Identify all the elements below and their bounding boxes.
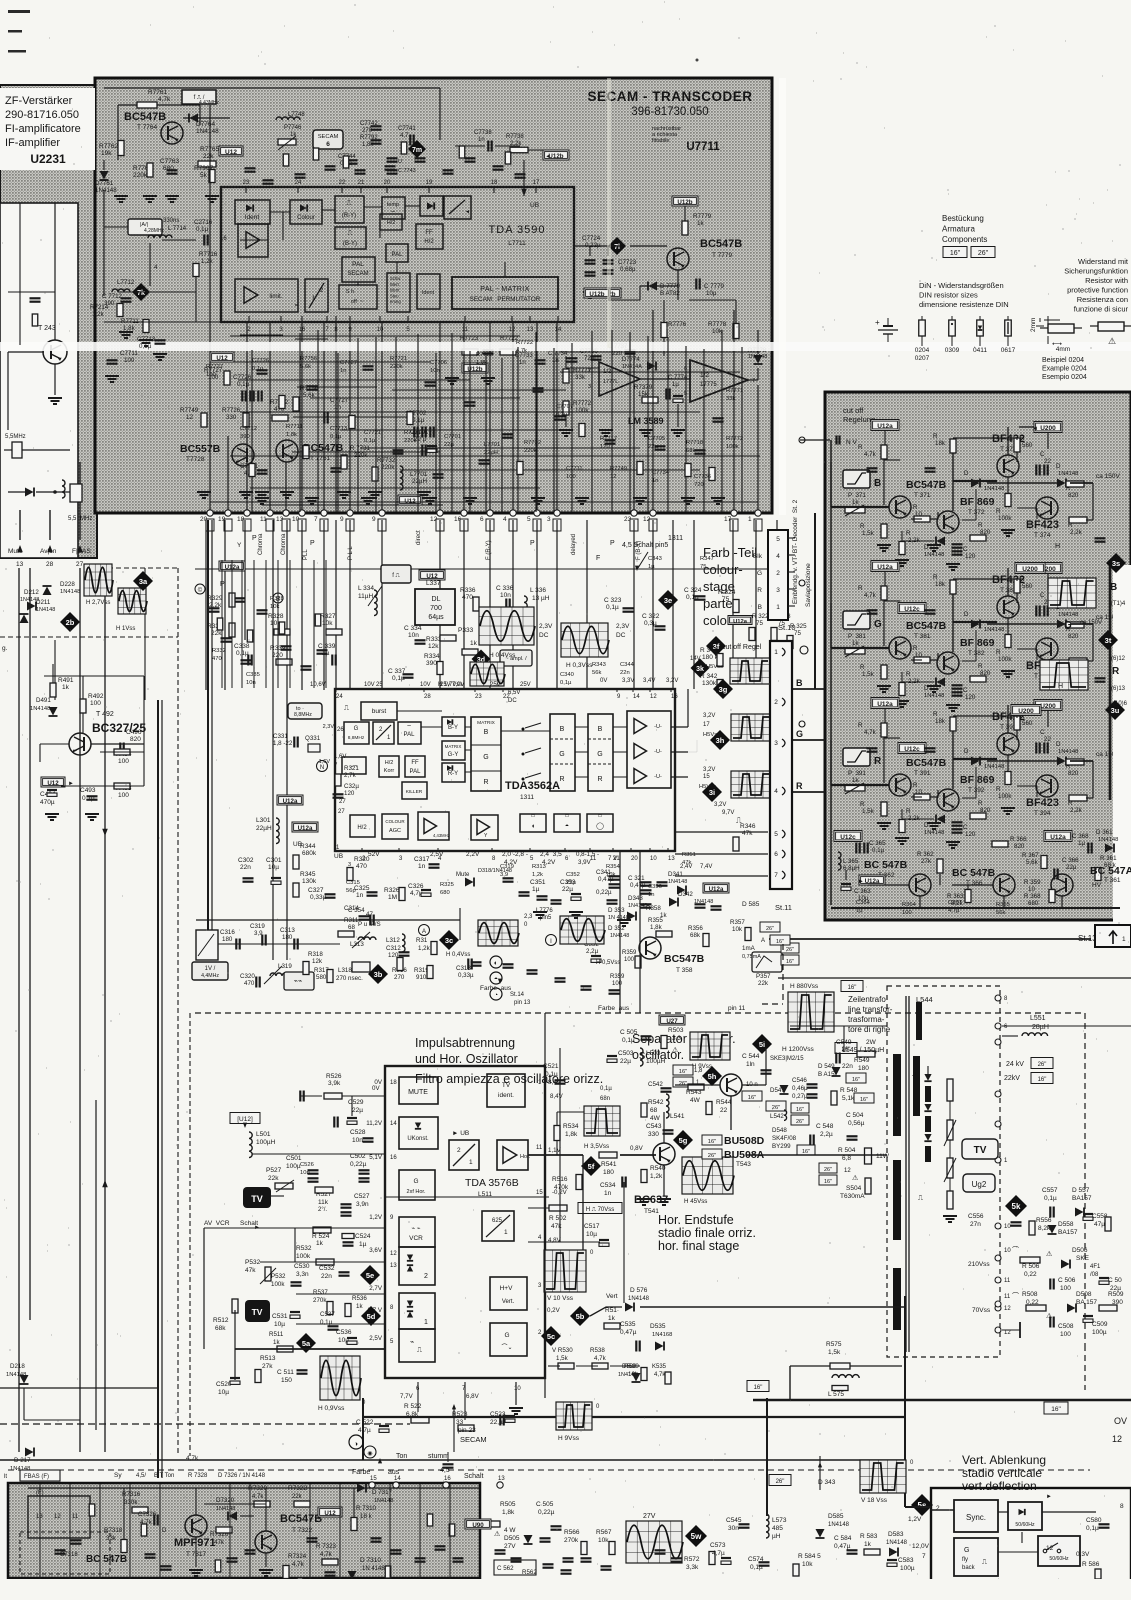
- svg-text:/08: /08: [1090, 1272, 1099, 1278]
- TDA3590 PAL SECAM box: [342, 257, 375, 282]
- heavy ground bus y1400: [753, 1399, 1131, 1402]
- svg-text:line transfor-: line transfor-: [848, 1005, 893, 1014]
- TDA3590 slope box: [444, 196, 471, 219]
- U12c boxes between channels: [898, 603, 926, 614]
- svg-text:R542: R542: [648, 1099, 664, 1106]
- svg-text:5,5: 5,5: [68, 516, 77, 522]
- svg-text:R359: R359: [622, 950, 637, 956]
- svg-text:◑: ◑: [354, 1441, 358, 1448]
- svg-text:C557: C557: [1042, 1187, 1058, 1194]
- U12a box colour top left: [219, 561, 245, 571]
- svg-text:L503: L503: [646, 1050, 661, 1057]
- svg-text:2,2µ: 2,2µ: [586, 948, 599, 955]
- svg-text:10n: 10n: [430, 368, 440, 374]
- svg-text:R: R: [1112, 666, 1120, 677]
- driver transistor BU508 base network: [720, 1074, 742, 1096]
- svg-text:16": 16": [748, 1095, 757, 1101]
- scan crease vertical: [779, 78, 786, 515]
- wire colour out to hor section: [619, 851, 621, 1013]
- vert block wires: [930, 1509, 954, 1511]
- transformer winding bars primary: [893, 1054, 901, 1136]
- St.11 tall connector strip: [770, 641, 792, 889]
- svg-text:R: R: [996, 508, 1001, 515]
- svg-text:1,8: 1,8: [694, 1068, 703, 1074]
- svg-text:C7713: C7713: [330, 426, 347, 432]
- svg-text:220k: 220k: [381, 464, 395, 471]
- svg-text:B: B: [598, 726, 603, 733]
- IF output lines to pins: [19, 510, 21, 540]
- svg-text:BU508D: BU508D: [724, 1135, 765, 1147]
- svg-text:⚠: ⚠: [852, 1174, 858, 1182]
- 3e diamond: [658, 590, 678, 610]
- svg-text:5c: 5c: [547, 1332, 555, 1341]
- svg-text:100k: 100k: [296, 1253, 311, 1260]
- svg-text:BY299: BY299: [772, 1143, 791, 1150]
- svg-text:16": 16": [852, 1077, 860, 1083]
- svg-text:dimensione resistenze DIN: dimensione resistenze DIN: [919, 300, 1009, 309]
- svg-text:0,27µ: 0,27µ: [792, 1093, 808, 1100]
- svg-text:L313: L313: [350, 941, 364, 948]
- svg-text:0,1µ: 0,1µ: [606, 604, 619, 611]
- svg-text:R7731: R7731: [404, 430, 421, 436]
- svg-text:► UB: ► UB: [452, 1130, 469, 1137]
- svg-text:R491: R491: [58, 677, 74, 684]
- svg-text:470: 470: [212, 656, 222, 662]
- svg-text:8: 8: [1120, 1503, 1124, 1510]
- svg-text:P532: P532: [271, 1273, 286, 1280]
- Sync box: [954, 1500, 998, 1532]
- svg-text:PAL: PAL: [404, 732, 416, 738]
- svg-text:▭: ▭: [565, 813, 570, 819]
- svg-text:470: 470: [462, 594, 473, 601]
- svg-text:4,5 Schalt pin5: 4,5 Schalt pin5: [622, 542, 668, 549]
- svg-text:L7701: L7701: [410, 471, 428, 478]
- svg-text:PAL: PAL: [392, 252, 404, 258]
- svg-text:10k: 10k: [606, 872, 615, 878]
- waveform boxes H5Vss right: [731, 714, 771, 741]
- svg-text:⚠: ⚠: [1108, 336, 1116, 346]
- svg-text:(10)6: (10)6: [1113, 701, 1128, 707]
- 5f diamond: [581, 1156, 601, 1176]
- svg-text:4,28MHz: 4,28MHz: [144, 228, 165, 234]
- svg-text:C583: C583: [898, 1557, 914, 1564]
- diamond 3s: [1106, 553, 1126, 573]
- svg-text:P: P: [530, 540, 535, 547]
- svg-text:C517: C517: [584, 1223, 600, 1230]
- svg-text:U12: U12: [404, 498, 416, 505]
- svg-text:L7712: L7712: [117, 279, 135, 286]
- wires from TDA3562A right to St11: [675, 831, 768, 833]
- RGB block channel base wires: [831, 506, 864, 508]
- svg-text:396-81730.050: 396-81730.050: [631, 106, 708, 118]
- svg-text:16": 16": [848, 985, 857, 991]
- svg-text:0,1µ: 0,1µ: [236, 650, 249, 657]
- svg-text:R325: R325: [440, 882, 454, 888]
- RGB output stage shaded area: [825, 392, 1131, 920]
- svg-text:R: R: [1020, 576, 1025, 583]
- svg-text:H5Vss: H5Vss: [703, 732, 720, 738]
- svg-text:33k: 33k: [575, 374, 586, 381]
- svg-text:C320: C320: [240, 973, 255, 980]
- svg-text:22: 22: [1044, 736, 1051, 743]
- svg-text:120: 120: [600, 444, 610, 450]
- svg-text:6,5V: 6,5V: [508, 690, 520, 696]
- svg-text:R 367: R 367: [1022, 852, 1039, 859]
- svg-text:12,0V: 12,0V: [912, 1543, 930, 1550]
- TDA3576B 2/1 box: [449, 1140, 479, 1170]
- svg-text:C 505: C 505: [620, 1029, 638, 1036]
- focus divider resistors: [947, 1079, 953, 1101]
- svg-text:0,47µ: 0,47µ: [620, 1329, 637, 1336]
- svg-text:P357: P357: [756, 973, 771, 980]
- svg-text:SKE: SKE: [1076, 1255, 1090, 1262]
- svg-text:22n: 22n: [620, 670, 630, 676]
- V18Vss waveform: [860, 1460, 906, 1493]
- svg-text:1k: 1k: [852, 640, 859, 647]
- svg-text:12: 12: [610, 474, 616, 480]
- wire bus top: [104, 87, 440, 89]
- svg-text:1: 1: [748, 516, 752, 523]
- svg-text:DC: DC: [539, 632, 549, 639]
- svg-text:V R530: V R530: [552, 1347, 573, 1354]
- svg-text:D 549: D 549: [818, 1063, 835, 1070]
- svg-text:330: 330: [648, 1131, 659, 1138]
- svg-text:1k: 1k: [852, 777, 859, 784]
- svg-text:DiN - Widerstandsgrößen: DiN - Widerstandsgrößen: [919, 281, 1004, 290]
- svg-text:16": 16": [1038, 1077, 1047, 1083]
- svg-text:4,7µ: 4,7µ: [948, 908, 960, 914]
- svg-text:R7379: R7379: [634, 384, 653, 391]
- svg-text:H: H: [1055, 543, 1060, 550]
- svg-text:D535: D535: [650, 1323, 666, 1330]
- 3f diamond: [706, 636, 726, 656]
- svg-text:(R-Y): (R-Y): [342, 213, 356, 219]
- svg-text:D 576: D 576: [630, 1287, 648, 1294]
- svg-text:2,2k: 2,2k: [510, 141, 522, 147]
- svg-text:C 504: C 504: [846, 1112, 864, 1119]
- svg-text:2,5V: 2,5V: [369, 1335, 383, 1342]
- svg-text:11k: 11k: [318, 1199, 329, 1206]
- svg-text:10: 10: [1004, 1224, 1011, 1230]
- top margin specks: [8, 10, 30, 13]
- svg-text:Mute: Mute: [456, 872, 470, 878]
- svg-text:R 361: R 361: [1100, 855, 1117, 862]
- svg-text:100k: 100k: [575, 407, 589, 414]
- svg-text:C7701: C7701: [444, 434, 461, 440]
- svg-text:3e: 3e: [664, 596, 672, 605]
- svg-text:T7728: T7728: [186, 456, 205, 463]
- U12a small box: [728, 616, 752, 625]
- svg-text:ZF-Verstärker: ZF-Verstärker: [5, 95, 73, 107]
- diamond 3t: [1098, 630, 1118, 650]
- SECAM extra horizontal ties 2: [230, 335, 520, 337]
- svg-text:L312: L312: [386, 937, 400, 944]
- svg-text:3,9k: 3,9k: [328, 1080, 341, 1087]
- svg-text:180: 180: [858, 1065, 869, 1072]
- svg-text:C 505: C 505: [536, 1501, 554, 1508]
- svg-text:120: 120: [965, 553, 976, 560]
- svg-text:100: 100: [566, 474, 576, 480]
- svg-text:P: P: [310, 540, 315, 547]
- svg-text:75: 75: [722, 596, 730, 603]
- svg-text:R534: R534: [563, 1123, 579, 1130]
- svg-text:F: F: [596, 555, 600, 562]
- 7k diamond: [132, 283, 150, 301]
- svg-text:28: 28: [424, 694, 431, 700]
- svg-text:B: B: [758, 604, 762, 611]
- 5c diamond: [541, 1326, 561, 1346]
- svg-text:47k: 47k: [682, 860, 691, 866]
- svg-text:0,1µ: 0,1µ: [1086, 1525, 1099, 1532]
- svg-text:C351: C351: [530, 879, 546, 886]
- svg-text:R: R: [996, 786, 1001, 793]
- svg-text:5: 5: [774, 831, 778, 838]
- svg-text:0,1µ: 0,1µ: [545, 1071, 558, 1078]
- svg-text:R 7328: R 7328: [188, 1473, 208, 1479]
- svg-text:18: 18: [491, 180, 498, 186]
- bottom scattered caps: [540, 1537, 551, 1539]
- svg-text:180 k: 180 k: [702, 654, 719, 661]
- channel B diode D373: [971, 479, 980, 488]
- svg-text:R: R: [978, 800, 983, 807]
- svg-text:470µ: 470µ: [40, 799, 55, 806]
- svg-text:0,47µ: 0,47µ: [834, 1543, 851, 1550]
- svg-text:ident.: ident.: [498, 1092, 514, 1099]
- svg-text:C508: C508: [1058, 1323, 1074, 1330]
- svg-text:1N4148: 1N4148: [1058, 471, 1078, 477]
- svg-text:R345: R345: [300, 871, 316, 878]
- svg-text:R344: R344: [300, 843, 316, 850]
- waveform H0,9Vss: [320, 1356, 360, 1400]
- svg-text:R7718: R7718: [686, 440, 703, 446]
- channel B input waveform box: [843, 470, 870, 488]
- TDA3590 S-h box: [339, 285, 377, 309]
- svg-text:R 359: R 359: [1024, 879, 1041, 886]
- svg-text:1N4148: 1N4148: [196, 128, 219, 135]
- svg-text:R7711: R7711: [286, 424, 303, 430]
- svg-text:C 322: C 322: [642, 613, 660, 620]
- TDA3562A PAL switch box: [398, 722, 421, 744]
- svg-text:R 362: R 362: [917, 851, 934, 858]
- svg-text:D: D: [964, 470, 969, 477]
- svg-text:R549: R549: [854, 1057, 870, 1064]
- svg-text:2,2k: 2,2k: [1070, 529, 1083, 536]
- svg-text:27V: 27V: [504, 1543, 516, 1550]
- D7778 diode: [754, 355, 763, 364]
- svg-text:C 506: C 506: [1058, 1277, 1076, 1284]
- svg-text:26": 26": [1038, 1062, 1047, 1068]
- svg-text:protective function: protective function: [1067, 286, 1128, 295]
- U12a box bottom: [1044, 831, 1072, 842]
- left-of-IC cluster to 8.8MHz: [288, 703, 322, 719]
- svg-text:68k: 68k: [215, 1325, 226, 1332]
- svg-text:22: 22: [720, 1107, 728, 1114]
- svg-text:100µ: 100µ: [900, 1565, 915, 1572]
- svg-text:R512: R512: [213, 1317, 229, 1324]
- 5b diamond: [570, 1306, 590, 1326]
- svg-text:26": 26": [796, 1119, 804, 1125]
- svg-text:R513: R513: [260, 1355, 276, 1362]
- svg-text:T 374: T 374: [1034, 532, 1051, 539]
- svg-text:2,3V: 2,3V: [323, 724, 335, 730]
- svg-text:Saviaposizione: Saviaposizione: [805, 563, 812, 607]
- svg-text:820: 820: [1068, 633, 1079, 640]
- svg-text:H 0,4Vss: H 0,4Vss: [446, 952, 470, 958]
- svg-text:R326: R326: [384, 887, 400, 894]
- svg-text:BF 869: BF 869: [960, 496, 995, 508]
- svg-text:◓: ◓: [565, 823, 569, 830]
- svg-text:R7716: R7716: [199, 251, 218, 258]
- svg-text:1µ: 1µ: [532, 886, 540, 893]
- svg-text:10n: 10n: [300, 1170, 310, 1176]
- svg-text:U12a: U12a: [877, 423, 893, 430]
- svg-text:820: 820: [1068, 492, 1079, 499]
- svg-text:270k: 270k: [564, 1537, 579, 1544]
- svg-text:D508: D508: [1076, 1291, 1092, 1298]
- svg-text:BF423: BF423: [1026, 519, 1059, 531]
- svg-text:22kV: 22kV: [1004, 1075, 1020, 1082]
- svg-text:10n: 10n: [408, 632, 419, 639]
- R541 resistor: [599, 1152, 617, 1158]
- colour section left parts: [209, 607, 220, 609]
- svg-text:C 7712: C 7712: [102, 293, 123, 300]
- svg-text:FI-amplificatore: FI-amplificatore: [5, 123, 81, 135]
- svg-text:4,7µ: 4,7µ: [358, 1427, 371, 1434]
- wires around TDA3576B: [351, 1096, 353, 1116]
- svg-text:R7749: R7749: [180, 407, 199, 414]
- svg-text:2,3V: 2,3V: [616, 623, 630, 630]
- U12 feed box: [219, 146, 243, 156]
- svg-text:K535: K535: [652, 1364, 667, 1370]
- svg-text:3,9n: 3,9n: [356, 1201, 369, 1208]
- svg-text:C 336: C 336: [496, 585, 514, 592]
- svg-text:C317: C317: [414, 856, 430, 863]
- page bottom white margin: [0, 1579, 1131, 1600]
- channel R input waveform box: [843, 748, 870, 766]
- svg-text:SKE3|M2/15: SKE3|M2/15: [770, 1056, 804, 1062]
- svg-text:24: 24: [336, 694, 343, 700]
- svg-text:BC547B: BC547B: [124, 111, 166, 123]
- svg-text:R: R: [860, 664, 865, 671]
- TDA3576B G 2xfHor box: [399, 1170, 435, 1200]
- svg-text:L318: L318: [338, 967, 352, 974]
- svg-text:Resistor with: Resistor with: [1085, 276, 1128, 285]
- svg-text:28: 28: [46, 561, 54, 568]
- svg-text:Schw: Schw: [390, 276, 401, 281]
- svg-text:485: 485: [772, 1525, 783, 1532]
- svg-text:22µ: 22µ: [648, 444, 658, 450]
- svg-text:hor. final stage: hor. final stage: [658, 1239, 739, 1253]
- svg-text:220k: 220k: [390, 364, 403, 370]
- IF-amplifier block shaded area: [0, 85, 97, 558]
- svg-text:5,6k: 5,6k: [300, 364, 311, 370]
- svg-text:C7727: C7727: [340, 360, 357, 366]
- svg-text:Ident: Ident: [390, 288, 400, 293]
- svg-text:C530: C530: [294, 1263, 310, 1270]
- svg-text:700: 700: [430, 605, 442, 612]
- svg-text:PAL - MATRIX: PAL - MATRIX: [480, 286, 529, 293]
- svg-text:1k: 1k: [697, 220, 704, 227]
- svg-text:temp: temp: [387, 202, 399, 208]
- SECAM block lower horizontal ties: [230, 361, 430, 363]
- svg-text:22µ: 22µ: [444, 442, 454, 448]
- svg-text:2,2k: 2,2k: [1070, 807, 1083, 814]
- svg-text:2,3: 2,3: [524, 914, 533, 920]
- svg-text:R7778: R7778: [708, 321, 727, 328]
- svg-text:C503: C503: [618, 1050, 634, 1057]
- SECAM transcoder block shaded area: [95, 78, 772, 513]
- diode D2xx: [25, 488, 34, 497]
- op-amp 1/2 17775 LM3589: [690, 360, 748, 402]
- svg-text:25V: 25V: [490, 682, 501, 688]
- svg-text:0204: 0204: [915, 347, 930, 354]
- svg-text:U12: U12: [324, 1510, 336, 1517]
- svg-text:15: 15: [703, 774, 710, 780]
- svg-text:470k: 470k: [554, 1184, 569, 1191]
- svg-text:1,2k: 1,2k: [532, 872, 543, 878]
- svg-text:2b: 2b: [66, 618, 75, 627]
- waveform H0,4Vss H0,5Vss: [478, 920, 518, 946]
- svg-text:C 7743: C 7743: [398, 168, 416, 174]
- svg-text:0,8V: 0,8V: [630, 1145, 644, 1152]
- waveform V10Vss: [544, 1250, 586, 1292]
- circled B connector: [273, 593, 283, 603]
- f/f waveform box top: [381, 565, 411, 583]
- svg-text:R7214: R7214: [90, 304, 109, 311]
- circled sym bottom: [349, 1435, 363, 1449]
- waveform H45Vss: [682, 1157, 733, 1194]
- svg-text:C340: C340: [560, 672, 574, 678]
- D7774 diode: [647, 362, 656, 371]
- svg-text:12: 12: [390, 1251, 397, 1257]
- 5d diamond: [361, 1306, 381, 1326]
- svg-text:2,2V: 2,2V: [466, 851, 480, 858]
- svg-text:R 368: R 368: [1024, 893, 1041, 900]
- svg-text:Ug2: Ug2: [972, 1180, 987, 1189]
- svg-text:9: 9: [340, 516, 344, 523]
- svg-text:VCR: VCR: [409, 1235, 423, 1242]
- svg-text:17: 17: [703, 722, 710, 728]
- heavy wire pin11 hor drive: [528, 1154, 583, 1156]
- svg-text:1,2V: 1,2V: [369, 1214, 383, 1221]
- svg-text:24 kV: 24 kV: [1006, 1061, 1024, 1068]
- svg-text:T 361: T 361: [1104, 877, 1121, 884]
- svg-text:R: R: [978, 663, 983, 670]
- svg-text:D7764: D7764: [196, 121, 216, 128]
- TDA3590 B-Y box: [335, 227, 366, 249]
- svg-text:R: R: [933, 711, 938, 718]
- mid dashed vertical x=545: [544, 1013, 546, 1398]
- svg-text:BA 157: BA 157: [1076, 1299, 1097, 1306]
- svg-text:1,5k: 1,5k: [862, 671, 875, 678]
- svg-text:7m: 7m: [412, 147, 422, 154]
- svg-text:2xf Hor.: 2xf Hor.: [407, 1189, 426, 1195]
- dashed frame horizontal section top: [195, 1012, 1085, 1014]
- svg-text:D 557: D 557: [1072, 1187, 1090, 1194]
- right edge white margin: [1113, 565, 1131, 925]
- svg-text:0,1µ: 0,1µ: [556, 412, 568, 418]
- svg-text:1k: 1k: [62, 684, 70, 691]
- svg-text:R: R: [858, 444, 863, 451]
- svg-text:S h: S h: [346, 289, 354, 295]
- TDA3562A bottom row H/2 box: [350, 815, 375, 837]
- svg-text:LM 3589: LM 3589: [628, 416, 664, 426]
- svg-text:R31: R31: [416, 937, 428, 944]
- 5g diamond: [673, 1130, 693, 1150]
- svg-text:2,7V: 2,7V: [369, 1285, 383, 1292]
- TDA3576B phase2 box: [399, 1247, 435, 1285]
- caps near pin 20: [387, 157, 398, 159]
